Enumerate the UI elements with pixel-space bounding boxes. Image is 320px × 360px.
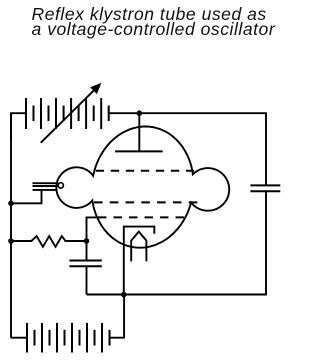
node: cathode junction dot: [121, 292, 127, 298]
wire: top-left stub from left rail to battery: [11, 113, 26, 140]
arrow of variable battery B1: [41, 89, 96, 143]
capacitor C2 (right) plates: [250, 184, 280, 186]
wire: bottom wire left segment: [87, 294, 124, 296]
title caption: [32, 7, 292, 37]
battery B2 (bottom): cell plates: [27, 323, 110, 353]
node: resistor right dot: [84, 238, 90, 244]
wire: bottom-left stub to bottom battery: [11, 337, 27, 339]
wire: bottom battery right stub up to bottom wire: [110, 295, 125, 338]
grid (dashed) row 1: [96, 170, 194, 172]
heater filament of V1: [131, 232, 146, 262]
wire: right rail below capacitor to bottom-right corner: [124, 191, 266, 294]
output coupling probe (3 lines): [33, 182, 58, 184]
klystron tube V1 envelope (body with two cavity bumps): [56, 127, 229, 248]
node: coupling junction dot on left rail: [8, 201, 14, 207]
wire: left rail: [10, 113, 12, 338]
capacitor C1 plates: [69, 260, 101, 262]
node: resistor left dot: [8, 238, 14, 244]
battery B1 (variable, top left): cell plates: [26, 98, 109, 129]
capacitor C1 (left) top lead: [86, 241, 88, 261]
wire: grid lead from resistor node up to grid row 3: [87, 217, 102, 241]
wire: top wire from battery to top-right corner: [109, 113, 266, 185]
repeller plate of V1: [115, 150, 163, 152]
wire: coupling down lead: [11, 190, 42, 203]
wire: capacitor C1 bottom lead: [86, 266, 88, 294]
resistor R1: [11, 236, 87, 247]
node: repeller junction dot: [137, 110, 143, 116]
grid (dashed) row 2: [94, 201, 198, 203]
grid (dashed) row 3: [98, 216, 184, 218]
wire: cathode lead down to bottom wire: [123, 240, 125, 295]
coupling loop: [58, 183, 63, 188]
wire: repeller lead: [138, 113, 140, 151]
cathode bracket of V1: [124, 227, 155, 240]
